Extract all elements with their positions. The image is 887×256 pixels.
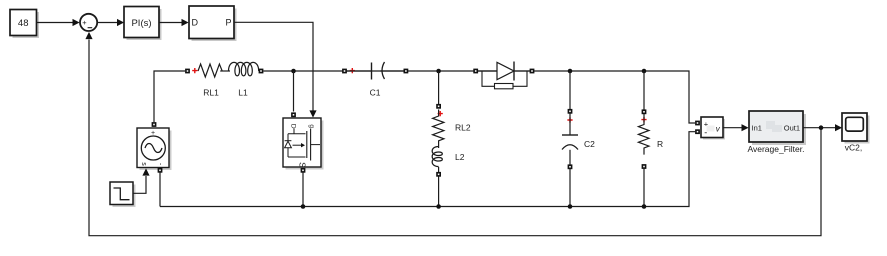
svg-text:+: +	[82, 18, 87, 27]
voltage measurement block	[695, 121, 700, 126]
svg-text:Out1: Out1	[784, 124, 800, 133]
wire filter to scope	[804, 127, 836, 129]
MOSFET Q1	[283, 118, 324, 170]
subsystem Average_Filter	[749, 111, 806, 145]
svg-text:RL1: RL1	[203, 88, 219, 98]
resistor RL2	[433, 110, 444, 149]
diode snubber	[482, 71, 527, 86]
junction node C2 tap	[568, 69, 573, 74]
svg-text:R: R	[657, 139, 663, 149]
svg-text:Average_Filter.: Average_Filter.	[747, 144, 804, 154]
svg-text:s: s	[140, 162, 147, 166]
inductor L2	[432, 147, 442, 167]
wire junction to MOSFET drain	[293, 71, 295, 112]
svg-text:In1: In1	[752, 124, 762, 133]
capacitor C1	[342, 69, 347, 74]
capacitor C2 branch	[569, 71, 571, 109]
svg-text:g: g	[308, 124, 315, 128]
svg-text:PI(s): PI(s)	[131, 18, 151, 29]
terminal D of MOSFET	[291, 112, 296, 117]
svg-text:D: D	[192, 18, 199, 28]
junction node switch	[291, 69, 296, 74]
svg-text:L2: L2	[455, 152, 465, 162]
constant block 48	[10, 10, 39, 39]
top rail wire	[154, 71, 185, 122]
wire 48 to sum	[37, 22, 73, 24]
svg-text:vC2,: vC2,	[845, 143, 862, 153]
svg-text:S: S	[298, 162, 308, 168]
resistor R branch	[643, 71, 645, 110]
terminal - of source	[158, 168, 163, 173]
junction node scope feedback	[819, 125, 824, 130]
terminal + of source	[152, 122, 157, 127]
wire PI to PWM	[160, 22, 183, 24]
PWM generator subsystem D-P	[189, 6, 237, 41]
ground rail junctions	[301, 204, 306, 209]
svg-text:P: P	[225, 18, 231, 28]
svg-text:D: D	[290, 124, 297, 129]
svg-text:48: 48	[18, 18, 29, 29]
sum block	[80, 14, 97, 31]
svg-text:L1: L1	[238, 88, 248, 98]
svg-text:C1: C1	[370, 88, 381, 98]
pulse generator	[110, 182, 136, 207]
controlled voltage source	[137, 128, 172, 170]
diode D	[473, 69, 478, 74]
wire pulse gen to source s input	[134, 176, 147, 193]
wire source minus to ground rail	[159, 173, 161, 207]
branch RL2 L2	[438, 71, 440, 104]
wire MOSFET source to ground rail	[302, 173, 304, 207]
feedback wire scope junction to sum	[89, 40, 821, 236]
wire measurement to filter	[724, 127, 743, 129]
svg-text:RL2: RL2	[455, 123, 471, 133]
wire P output to MOSFET gate	[234, 22, 313, 111]
junction node RL2 tap	[436, 69, 441, 74]
resistor RL1	[185, 69, 190, 74]
junction node R tap	[642, 69, 647, 74]
wire sum to PI	[97, 22, 117, 24]
PI controller PI(s)	[124, 7, 162, 41]
ground rail wire	[160, 132, 695, 207]
scope vC2	[842, 113, 870, 144]
terminal S of MOSFET	[301, 168, 306, 173]
inductor L1	[229, 62, 259, 76]
svg-text:C2: C2	[584, 139, 595, 149]
